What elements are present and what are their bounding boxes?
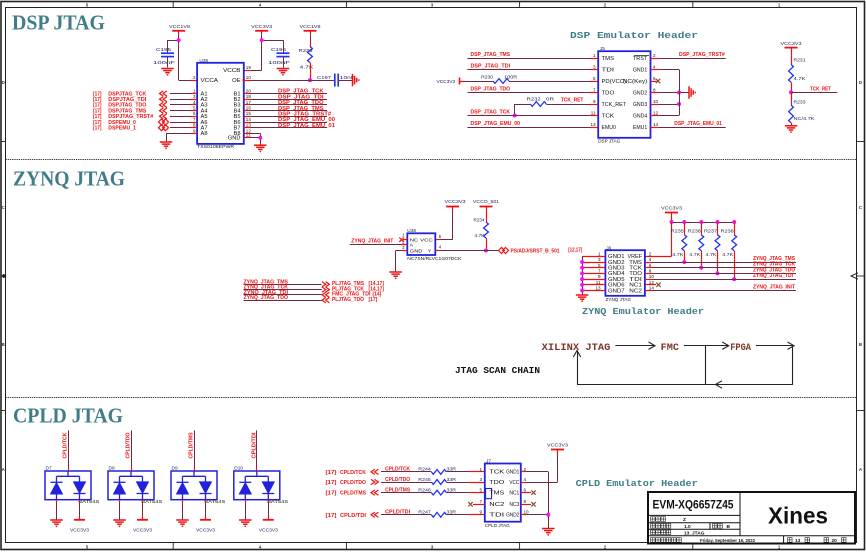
svg-text:R237: R237	[704, 228, 718, 233]
svg-text:4.7K: 4.7K	[689, 252, 701, 257]
svg-text:100nF: 100nF	[268, 60, 290, 65]
scan chain feedback right vertical	[792, 346, 794, 385]
svg-text:33R: 33R	[447, 477, 457, 482]
D7 right pin to VCC3V3	[79, 500, 81, 503]
svg-text:CPLD/TDI: CPLD/TDI	[340, 513, 367, 519]
svg-text:R236: R236	[688, 228, 702, 233]
svg-text:10: 10	[653, 99, 659, 104]
svg-text:C196: C196	[271, 47, 287, 52]
J6 left pin numbers	[595, 251, 601, 290]
wire OE to C197	[244, 80, 251, 82]
no-connect X on U36 pin1	[403, 239, 407, 241]
svg-text:CPLD/TDI: CPLD/TDI	[251, 432, 257, 459]
svg-text:BAT54S: BAT54S	[141, 499, 162, 504]
svg-text:EMU1: EMU1	[633, 125, 648, 131]
svg-text:4.7K: 4.7K	[722, 252, 734, 257]
svg-text:D: D	[2, 80, 5, 85]
D7 left pin to ground	[56, 500, 58, 503]
svg-text:33R: 33R	[447, 467, 457, 472]
svg-text:Friday, September 16, 2022: Friday, September 16, 2022	[700, 538, 755, 544]
svg-text:CPLD/TDO: CPLD/TDO	[340, 480, 366, 486]
svg-text:B: B	[727, 524, 731, 530]
J7 right pin numbers	[524, 467, 530, 515]
U35 B-side net labels	[278, 89, 335, 129]
scan chain feedback bottom wire	[577, 384, 793, 386]
svg-text:[17]: [17]	[326, 480, 337, 486]
U35 A-side pin names	[201, 91, 208, 137]
wire DSP_JTAG_TDI to J5 pin3	[467, 69, 590, 71]
junction TCK_RET divider	[789, 90, 793, 94]
DSP input signal labels left	[93, 91, 154, 131]
svg-text:VCC1V8: VCC1V8	[169, 24, 190, 30]
svg-text:13: 13	[795, 538, 801, 544]
junction R238 to signal	[732, 277, 736, 281]
svg-text:B: B	[2, 342, 5, 347]
wire CPLD/TCK tap to D7	[68, 430, 70, 467]
wire J5 pin2 DSP_JTAG_TRST#	[651, 58, 659, 60]
svg-text:ZYNQ_JTAG_INIT: ZYNQ_JTAG_INIT	[753, 285, 796, 291]
ZYNQ pullup bus wire	[672, 222, 735, 224]
svg-text:U36: U36	[407, 228, 416, 234]
resistor R236 4.7K pullup	[688, 220, 704, 268]
J5 right pin names	[623, 56, 648, 131]
svg-text:GND2: GND2	[506, 513, 519, 519]
svg-text:R230: R230	[481, 74, 493, 79]
junction R234 output	[484, 249, 488, 253]
svg-text:13: 13	[590, 122, 596, 127]
svg-text:VCCO_501: VCCO_501	[473, 199, 499, 205]
junction B8-GND	[258, 136, 262, 140]
offpage connector PS reset	[499, 248, 509, 254]
svg-text:VCC3V3: VCC3V3	[445, 199, 466, 205]
svg-text:14: 14	[246, 117, 252, 122]
svg-text:[17]: [17]	[326, 513, 337, 519]
J5 ground bus vertical	[679, 70, 681, 116]
scan chain arrow FMC to FPGA	[684, 345, 728, 347]
svg-text:CPLD/TDO: CPLD/TDO	[385, 477, 410, 483]
U35 B-side pin numbers	[246, 88, 252, 133]
svg-text:VCC3V3: VCC3V3	[70, 527, 89, 532]
D9 left pin to ground	[182, 500, 184, 503]
svg-text:PS/ADJ/SRST_B_501: PS/ADJ/SRST_B_501	[511, 249, 560, 255]
scan chain return vertical with up arrow	[577, 352, 579, 385]
wire U36 GND to ground	[402, 250, 407, 252]
ground below J6 bus	[576, 295, 589, 301]
scan chain arrow FPGA to right	[756, 345, 793, 347]
title block revision row	[651, 524, 671, 529]
svg-text:ZYNQ JTAG: ZYNQ JTAG	[606, 297, 632, 302]
ground below A8	[160, 142, 173, 148]
junction R236 to signal	[699, 266, 703, 270]
sideways ground at J5 GND2	[689, 86, 695, 99]
J6 right pin numbers	[649, 251, 655, 290]
J7 right pin names	[506, 470, 519, 519]
svg-text:R235: R235	[671, 228, 685, 233]
svg-text:TDO: TDO	[489, 480, 504, 486]
J5 left pin names	[602, 56, 627, 131]
wire DSP_JTAG_TCK to J5 pin11	[467, 115, 590, 117]
svg-text:NC/4.7K: NC/4.7K	[794, 116, 816, 121]
junction R237 to signal	[716, 271, 720, 275]
svg-text:20: 20	[246, 88, 252, 93]
svg-text:GND3: GND3	[633, 102, 648, 108]
J7 left pin numbers	[479, 467, 482, 515]
svg-text:PLJTAG_TDO: PLJTAG_TDO	[332, 297, 364, 303]
wire J7 pin6 NC1 stub	[521, 492, 531, 494]
svg-text:JTAG SCAN CHAIN: JTAG SCAN CHAIN	[455, 366, 540, 376]
svg-text:A8: A8	[201, 131, 208, 137]
ground below D9	[176, 520, 189, 526]
svg-text:R234: R234	[474, 218, 485, 223]
D10 right pin to VCC3V3	[268, 500, 270, 503]
wire VCC3V3 node to C196 and VCCB	[262, 40, 283, 42]
frame center marker left	[1, 274, 6, 278]
scan chain feedback left arrowhead	[716, 381, 723, 388]
svg-text:TCK_RET: TCK_RET	[561, 98, 584, 104]
svg-text:TDI: TDI	[602, 67, 615, 73]
svg-text:C195: C195	[156, 47, 172, 52]
svg-text:13: 13	[246, 123, 252, 128]
svg-text:DSP_JTAG_EMU_00: DSP_JTAG_EMU_00	[471, 121, 521, 127]
scan chain arrow XILINX to FMC	[615, 345, 654, 347]
ground below C195	[161, 69, 174, 75]
svg-text:R247: R247	[418, 510, 431, 515]
svg-text:NC7SN/RLVC1G07DCK: NC7SN/RLVC1G07DCK	[407, 256, 461, 261]
svg-text:NC(Key): NC(Key)	[623, 79, 648, 85]
svg-text:TXS0108EPWR: TXS0108EPWR	[197, 144, 235, 149]
sideways ground after C197	[353, 74, 359, 87]
svg-text:VCC: VCC	[509, 480, 519, 486]
svg-text:DSP_JTAG_EMU_01: DSP_JTAG_EMU_01	[278, 123, 335, 129]
svg-text:11: 11	[591, 110, 596, 115]
svg-text:U35: U35	[199, 58, 208, 64]
ground below D8	[113, 520, 126, 526]
svg-text:4.7K: 4.7K	[300, 65, 315, 70]
svg-text:GND4: GND4	[633, 113, 648, 119]
wire U35 B8 and GND to ground	[244, 133, 251, 135]
svg-text:ZYNQ JTAG: ZYNQ JTAG	[13, 167, 125, 191]
wire DSP_JTAG_TMS to J5 pin1	[467, 58, 590, 60]
svg-text:18: 18	[246, 94, 252, 99]
title block page numbers	[788, 538, 793, 543]
wire VCC3V3 down to U36 VCC pin	[452, 212, 454, 240]
wire VCC3V3 to J6 VREF	[671, 222, 673, 256]
svg-text:C197: C197	[317, 75, 332, 80]
svg-text:VCC1V8: VCC1V8	[300, 24, 321, 30]
svg-text:DSP Emulator Header: DSP Emulator Header	[570, 30, 698, 41]
ground below U35 GND	[254, 145, 266, 151]
svg-text:VCCB: VCCB	[223, 68, 241, 74]
wire ZYNQ_JTAG_TCK from J6	[645, 267, 653, 269]
svg-text:DSP_JTAG_EMU_01: DSP_JTAG_EMU_01	[674, 121, 722, 127]
svg-text:R238: R238	[721, 228, 735, 233]
svg-text:100nF: 100nF	[153, 60, 175, 65]
ground below D7	[50, 520, 63, 526]
wire U35 A8 to ground	[191, 133, 198, 135]
DSP input chevrons	[160, 91, 167, 96]
title block date row	[651, 538, 682, 543]
svg-text:R245: R245	[418, 477, 431, 482]
svg-text:ZYNQ Emulator Header: ZYNQ Emulator Header	[582, 306, 704, 317]
svg-text:VCC3V3: VCC3V3	[437, 79, 456, 85]
no-connect X on J5 pin6	[656, 79, 660, 83]
svg-text:EVM-XQ6657Z45: EVM-XQ6657Z45	[653, 500, 735, 512]
connector J5 DSP JTAG header	[598, 46, 650, 143]
svg-text:DSPEMU_1: DSPEMU_1	[108, 126, 136, 132]
svg-text:20: 20	[832, 538, 838, 544]
svg-text:[12,17]: [12,17]	[568, 248, 582, 254]
svg-text:VCC3V3: VCC3V3	[259, 527, 278, 532]
svg-text:FMC: FMC	[661, 343, 679, 354]
svg-text:GND1: GND1	[506, 470, 519, 476]
svg-text:0R: 0R	[546, 97, 555, 102]
wire CPLD/TMS tap to D9	[194, 430, 196, 467]
ground below U36	[389, 272, 402, 278]
svg-text:10: 10	[649, 274, 655, 279]
DSP input wires to U35 A pins	[170, 93, 191, 95]
svg-text:14: 14	[653, 122, 659, 127]
svg-text:DSP_JTAG_TDO: DSP_JTAG_TDO	[471, 87, 511, 93]
svg-text:NC2: NC2	[629, 288, 642, 294]
svg-text:[17]: [17]	[369, 297, 378, 303]
wire J7 GND2 to ground bus	[521, 514, 526, 516]
svg-text:DSP_JTAG_TCK: DSP_JTAG_TCK	[471, 110, 511, 116]
svg-text:DSP_JTAG_TRST#: DSP_JTAG_TRST#	[679, 52, 726, 58]
junction R232-TCK	[513, 114, 517, 118]
junction VCC bus	[670, 220, 674, 224]
net CPLD/TDO input	[326, 477, 411, 486]
wire ZYNQ_JTAG_TDI	[244, 294, 322, 296]
svg-text:[17]: [17]	[93, 126, 102, 132]
svg-text:VCC: VCC	[420, 238, 433, 244]
junction VCC3V3 node	[260, 38, 264, 42]
scan chain feedback T vertical	[705, 346, 707, 385]
svg-text:VCC3V3: VCC3V3	[781, 41, 802, 47]
svg-text:4.7K: 4.7K	[672, 252, 684, 257]
svg-text:FPGA: FPGA	[730, 343, 751, 354]
svg-text:TDI: TDI	[489, 513, 504, 519]
connector J6 ZYNQ JTAG header	[605, 245, 645, 301]
IC U35 TXS0108EPWR	[197, 58, 244, 149]
wire ZYNQ_JTAG_INIT to U36 A	[350, 244, 402, 246]
wire TCK_RET net	[791, 92, 837, 94]
wire CPLD/TDI tap to D10	[256, 430, 258, 467]
svg-text:OE: OE	[232, 78, 241, 84]
svg-text:D8: D8	[109, 466, 115, 472]
resistor R246 33R	[381, 487, 485, 495]
svg-text:D9: D9	[172, 466, 178, 472]
diode D9 BAT54S	[171, 466, 225, 505]
svg-text:R233: R233	[794, 100, 806, 105]
frame center marker right	[851, 273, 858, 279]
junction GND2 bus	[677, 91, 681, 95]
svg-text:CPLD/TCK: CPLD/TCK	[340, 470, 366, 476]
svg-text:R244: R244	[418, 467, 431, 472]
J7 left pin names	[489, 470, 505, 519]
wire J5 pin6 NC stub	[651, 81, 657, 83]
wire DSP_JTAG_TDO to J5 pin7	[467, 92, 590, 94]
ground below D10	[239, 520, 252, 526]
svg-text:VCC3V3: VCC3V3	[661, 206, 682, 212]
svg-text:13_JTAG: 13_JTAG	[684, 531, 705, 537]
connector J7 CPLD JTAG header	[485, 458, 521, 528]
svg-text:16: 16	[246, 106, 252, 111]
svg-text:TCK_RET: TCK_RET	[602, 102, 627, 108]
svg-text:DSP JTAG: DSP JTAG	[598, 139, 620, 144]
svg-text:J5: J5	[600, 46, 605, 52]
svg-text:TMS: TMS	[602, 56, 615, 62]
svg-text:TDO: TDO	[602, 90, 615, 96]
U35 A-side pin numbers	[193, 88, 196, 133]
svg-text:15: 15	[246, 111, 252, 116]
svg-text:J7: J7	[486, 458, 491, 464]
net CPLD/TCK input	[326, 467, 411, 476]
wire J7 pin8 NC3 stub	[521, 504, 531, 506]
resistor R244 33R	[381, 467, 485, 475]
J6 left pin names	[608, 254, 625, 294]
svg-text:4.7K: 4.7K	[794, 76, 807, 81]
resistor R238 4.7K pullup	[721, 220, 737, 279]
junction R229-OE	[308, 78, 312, 82]
U35 B-side output wires	[244, 93, 251, 95]
svg-text:[17]: [17]	[326, 470, 337, 476]
svg-text:EMU0: EMU0	[602, 125, 617, 131]
svg-text:BAT54S: BAT54S	[78, 499, 99, 504]
svg-text:33R: 33R	[447, 510, 457, 515]
wire ZYNQ_JTAG_TDO from J6	[645, 273, 653, 275]
ground below J7 bus	[542, 529, 555, 535]
svg-text:TCK: TCK	[489, 470, 505, 476]
net CPLD/TDI input	[326, 510, 411, 519]
svg-text:B: B	[859, 342, 862, 347]
svg-text:CPLD/TCK: CPLD/TCK	[63, 432, 69, 458]
svg-text:Xines: Xines	[768, 503, 828, 529]
wire J5 pin12 GND4 to gnd bus	[651, 115, 659, 117]
section separator line 1	[6, 159, 857, 161]
svg-text:33R: 33R	[447, 487, 457, 492]
svg-text:VCC3V3: VCC3V3	[196, 527, 215, 532]
svg-text:GND1: GND1	[633, 67, 648, 73]
IC U36 buffer NC7SN/RLVC1G07DCK	[407, 228, 461, 261]
D10 left pin to ground	[245, 500, 247, 503]
svg-text:14: 14	[649, 286, 655, 291]
section separator line 2	[6, 397, 857, 399]
svg-text:BAT54S: BAT54S	[204, 499, 225, 504]
svg-text:VCCA: VCCA	[201, 78, 219, 84]
wire ZYNQ_JTAG_TMS	[244, 284, 322, 286]
svg-text:19: 19	[246, 65, 252, 70]
svg-text:ZYNQ_JTAG_TDI: ZYNQ_JTAG_TDI	[753, 273, 793, 279]
junction VCC1V8 node	[177, 38, 181, 42]
svg-text:D7: D7	[46, 466, 52, 472]
svg-text:TMS: TMS	[489, 490, 505, 496]
svg-text:TRST: TRST	[633, 56, 647, 62]
svg-text:VCC3V3: VCC3V3	[133, 527, 152, 532]
svg-text:DSP JTAG: DSP JTAG	[12, 11, 105, 35]
svg-text:CPLD/TDO: CPLD/TDO	[126, 433, 132, 459]
U35 B-side pin names	[234, 91, 241, 137]
svg-text:13: 13	[595, 286, 601, 291]
wire J5 pin14 DSP_JTAG_EMU_01	[651, 127, 659, 129]
svg-text:NC3: NC3	[509, 502, 519, 508]
D9 right pin to VCC3V3	[205, 500, 207, 503]
svg-text:CPLD/TMS: CPLD/TMS	[340, 491, 366, 497]
title block box	[648, 492, 855, 544]
wire R232 link down to TCK line	[514, 104, 516, 116]
svg-text:Z: Z	[683, 517, 686, 523]
svg-text:GND: GND	[410, 248, 423, 254]
wire VCC1V8 to C195 and VCCA	[168, 40, 179, 42]
title block sheet name row	[651, 530, 671, 535]
wire J7 GND1 to ground bus	[521, 471, 526, 473]
svg-text:NC1: NC1	[509, 490, 519, 496]
svg-text:12: 12	[653, 110, 659, 115]
resistor R235 4.7K pullup	[671, 220, 687, 262]
D8 left pin to ground	[119, 500, 121, 503]
wire ZYNQ_JTAG_TDI from J6	[645, 279, 653, 281]
J6 ground stubs and bus	[580, 256, 605, 294]
no-connect X on J6 NC1	[645, 284, 656, 286]
svg-text:R232: R232	[527, 97, 542, 102]
svg-text:GND: GND	[228, 136, 241, 142]
junction GND2 bus	[546, 513, 550, 517]
junction R235 to signal	[682, 260, 686, 264]
J5 left pin numbers	[590, 53, 596, 127]
svg-text:CPLD Emulator Header: CPLD Emulator Header	[576, 478, 698, 489]
wire J5 pin4 GND1 to gnd bus	[651, 69, 659, 71]
J5 TRST overline	[634, 55, 649, 57]
svg-text:10: 10	[246, 75, 252, 80]
ground below R233	[785, 126, 798, 132]
diode D7 BAT54S	[45, 466, 99, 505]
resistor R245 33R	[381, 477, 485, 485]
svg-text:R231: R231	[794, 58, 806, 63]
svg-text:TCK_RET: TCK_RET	[810, 86, 831, 92]
svg-text:D: D	[859, 80, 862, 85]
wire ZYNQ_JTAG_TCK	[244, 289, 322, 291]
svg-text:DSP_JTAG_TDI: DSP_JTAG_TDI	[471, 64, 511, 70]
J6 right pin names	[628, 254, 643, 294]
wire J5 pin8 GND2 to sideways ground	[651, 92, 659, 94]
svg-text:NC2: NC2	[489, 502, 504, 508]
wire J7 pin7 NC2 stub	[473, 504, 485, 506]
wire DSP_JTAG_EMU_00 to J5 pin13	[467, 127, 590, 129]
svg-text:VCC3V3: VCC3V3	[251, 24, 272, 30]
svg-text:CPLD JTAG: CPLD JTAG	[13, 404, 123, 428]
title block designer row	[651, 517, 666, 522]
svg-text:CPLD JTAG: CPLD JTAG	[485, 523, 510, 528]
wire CPLD/TDO tap to D8	[131, 430, 133, 467]
svg-text:4.7K: 4.7K	[706, 252, 718, 257]
svg-text:ZYNQ_JTAG_INIT: ZYNQ_JTAG_INIT	[351, 238, 394, 244]
wire J5 pin10 GND3 to gnd bus	[651, 104, 659, 106]
ground below C196	[277, 69, 290, 75]
svg-text:J6: J6	[606, 245, 611, 251]
svg-text:ZYNQ_JTAG_TDO: ZYNQ_JTAG_TDO	[244, 295, 289, 301]
net CPLD/TMS input	[326, 487, 411, 496]
svg-text:GND7: GND7	[608, 288, 625, 294]
junction GND3 bus	[677, 102, 681, 106]
wire ZYNQ_JTAG_INIT from J6 NC2	[645, 290, 653, 292]
svg-text:CPLD/TMS: CPLD/TMS	[189, 432, 195, 458]
svg-text:1.0: 1.0	[684, 524, 691, 530]
svg-text:TCK: TCK	[602, 113, 615, 119]
J7 key notch box	[486, 489, 492, 499]
wire U36 Y output to PS reset net	[435, 250, 440, 252]
svg-text:D10: D10	[234, 466, 243, 472]
svg-text:GND2: GND2	[633, 90, 648, 96]
svg-text:BAT54S: BAT54S	[267, 499, 288, 504]
